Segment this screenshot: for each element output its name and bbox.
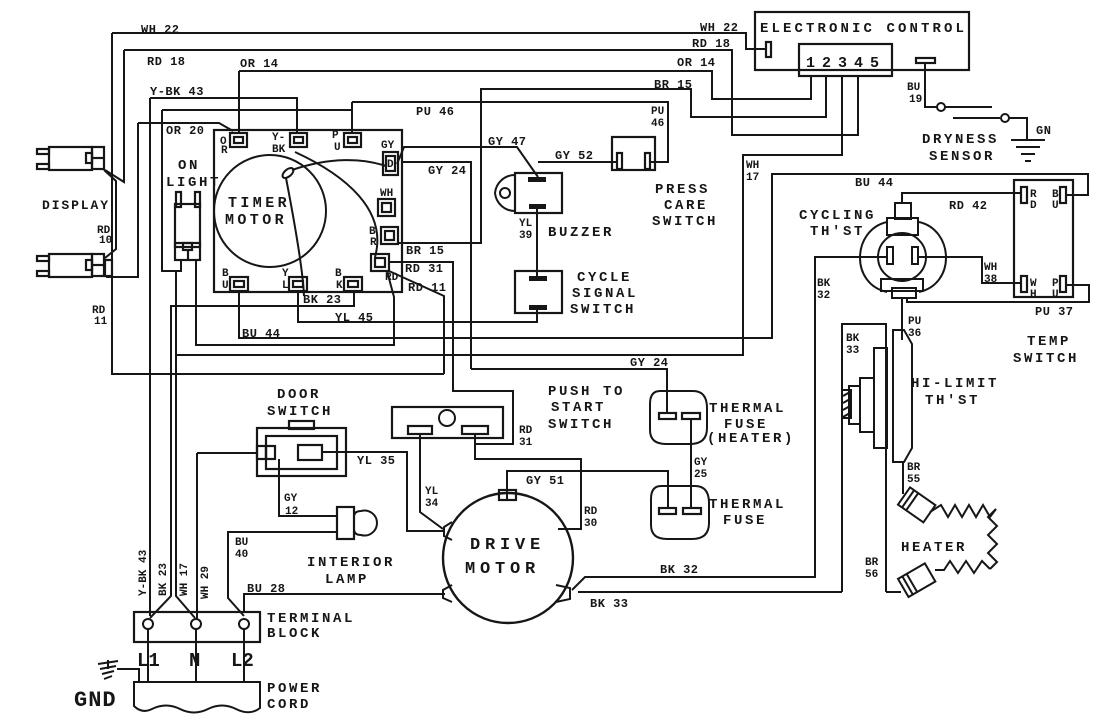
- svg-text:GY: GY: [381, 140, 395, 152]
- svg-text:GY 52: GY 52: [555, 149, 594, 163]
- svg-text:RD 42: RD 42: [949, 199, 988, 213]
- svg-text:PRESS: PRESS: [655, 182, 710, 198]
- svg-text:BR: BR: [865, 557, 879, 569]
- svg-text:CORD: CORD: [267, 697, 311, 713]
- svg-text:U: U: [1052, 200, 1059, 212]
- svg-text:L1: L1: [137, 650, 160, 672]
- svg-text:BR 15: BR 15: [406, 244, 445, 258]
- svg-text:R: R: [221, 145, 228, 157]
- svg-text:TEMP: TEMP: [1027, 334, 1071, 350]
- svg-text:K: K: [336, 280, 343, 292]
- svg-text:CYCLING: CYCLING: [799, 208, 876, 224]
- svg-text:BK: BK: [846, 333, 860, 345]
- svg-text:WH 17: WH 17: [179, 563, 191, 596]
- svg-text:TIMER: TIMER: [228, 195, 290, 212]
- svg-text:12345: 12345: [806, 55, 886, 72]
- svg-text:46: 46: [651, 118, 664, 130]
- svg-text:SENSOR: SENSOR: [929, 149, 995, 165]
- svg-text:N: N: [189, 650, 200, 672]
- svg-text:LAMP: LAMP: [325, 572, 369, 588]
- svg-text:RD 18: RD 18: [692, 37, 731, 51]
- svg-text:PUSH TO: PUSH TO: [548, 384, 625, 400]
- svg-text:D: D: [387, 159, 394, 171]
- svg-text:DISPLAY: DISPLAY: [42, 198, 110, 213]
- svg-text:WH: WH: [380, 188, 393, 200]
- svg-text:CARE: CARE: [664, 198, 708, 214]
- svg-text:Y-BK 43: Y-BK 43: [138, 549, 150, 596]
- svg-text:THERMAL: THERMAL: [709, 497, 786, 513]
- svg-text:ON: ON: [178, 158, 200, 174]
- svg-text:HEATER: HEATER: [901, 540, 967, 556]
- svg-text:40: 40: [235, 549, 248, 561]
- svg-text:GY: GY: [694, 457, 708, 469]
- svg-text:Y-BK 43: Y-BK 43: [150, 85, 204, 99]
- svg-text:34: 34: [425, 498, 439, 510]
- svg-text:WH 22: WH 22: [141, 23, 180, 37]
- svg-text:D: D: [1030, 200, 1037, 212]
- svg-text:BK: BK: [272, 144, 286, 156]
- svg-text:WH 22: WH 22: [700, 21, 739, 35]
- svg-text:YL 45: YL 45: [335, 311, 374, 325]
- svg-text:PU: PU: [651, 106, 664, 118]
- svg-text:10: 10: [99, 235, 112, 247]
- svg-text:RD 18: RD 18: [147, 55, 186, 69]
- svg-text:H: H: [1030, 289, 1037, 301]
- svg-text:PU: PU: [908, 316, 921, 328]
- svg-text:PU 46: PU 46: [416, 105, 455, 119]
- svg-text:BK 23: BK 23: [158, 563, 170, 596]
- svg-text:SWITCH: SWITCH: [267, 404, 333, 420]
- svg-text:BLOCK: BLOCK: [267, 626, 322, 642]
- svg-text:YL: YL: [519, 218, 533, 230]
- svg-text:11: 11: [94, 316, 108, 328]
- svg-text:WH: WH: [984, 262, 997, 274]
- svg-text:BK 23: BK 23: [303, 293, 342, 307]
- svg-text:BK: BK: [817, 278, 831, 290]
- svg-text:FUSE: FUSE: [723, 513, 767, 529]
- svg-text:GN: GN: [1036, 124, 1051, 138]
- svg-text:Y-: Y-: [272, 132, 285, 144]
- svg-text:OR 20: OR 20: [166, 124, 205, 138]
- svg-text:DRIVE: DRIVE: [470, 536, 545, 555]
- svg-text:U: U: [222, 280, 229, 292]
- svg-text:BU 28: BU 28: [247, 582, 286, 596]
- svg-text:55: 55: [907, 474, 921, 486]
- svg-text:B: B: [222, 268, 229, 280]
- svg-text:P: P: [332, 130, 339, 142]
- svg-text:BUZZER: BUZZER: [548, 225, 614, 241]
- svg-text:TERMINAL: TERMINAL: [267, 611, 355, 627]
- svg-text:25: 25: [694, 469, 708, 481]
- svg-text:TH'ST: TH'ST: [925, 393, 980, 409]
- svg-text:GY 24: GY 24: [630, 356, 669, 370]
- svg-text:BR: BR: [907, 462, 921, 474]
- svg-text:BK 32: BK 32: [660, 563, 699, 577]
- svg-text:RD 11: RD 11: [408, 281, 447, 295]
- svg-text:SWITCH: SWITCH: [652, 214, 718, 230]
- svg-text:38: 38: [984, 274, 998, 286]
- svg-text:L: L: [282, 280, 289, 292]
- svg-text:(HEATER): (HEATER): [707, 431, 795, 447]
- svg-text:ELECTRONIC CONTROL: ELECTRONIC CONTROL: [760, 21, 967, 37]
- svg-text:30: 30: [584, 518, 597, 530]
- svg-text:YL: YL: [425, 486, 439, 498]
- svg-text:17: 17: [746, 172, 759, 184]
- svg-text:GY: GY: [284, 493, 298, 505]
- svg-text:INTERIOR: INTERIOR: [307, 555, 395, 571]
- svg-text:MOTOR: MOTOR: [225, 212, 287, 229]
- svg-text:SIGNAL: SIGNAL: [572, 286, 638, 302]
- svg-text:SWITCH: SWITCH: [1013, 351, 1079, 367]
- svg-text:BU 44: BU 44: [242, 327, 281, 341]
- svg-text:BU: BU: [235, 537, 248, 549]
- svg-text:OR 14: OR 14: [240, 57, 279, 71]
- svg-text:GY 24: GY 24: [428, 164, 467, 178]
- svg-text:33: 33: [846, 345, 860, 357]
- svg-text:SWITCH: SWITCH: [570, 302, 636, 318]
- svg-text:MOTOR: MOTOR: [465, 560, 540, 579]
- svg-text:19: 19: [909, 94, 922, 106]
- svg-text:U: U: [1052, 289, 1059, 301]
- svg-text:GY 51: GY 51: [526, 474, 565, 488]
- svg-text:POWER: POWER: [267, 681, 322, 697]
- svg-text:GY 47: GY 47: [488, 135, 527, 149]
- svg-text:LIGHT: LIGHT: [166, 175, 221, 191]
- svg-text:START: START: [551, 400, 606, 416]
- svg-text:RD: RD: [519, 425, 533, 437]
- svg-text:R: R: [370, 237, 377, 249]
- svg-text:SWITCH: SWITCH: [548, 417, 614, 433]
- svg-text:56: 56: [865, 569, 878, 581]
- svg-text:OR 14: OR 14: [677, 56, 716, 70]
- svg-text:HI-LIMIT: HI-LIMIT: [911, 376, 999, 392]
- svg-text:CYCLE: CYCLE: [577, 270, 632, 286]
- svg-text:THERMAL: THERMAL: [709, 401, 786, 417]
- svg-text:U: U: [334, 142, 341, 154]
- svg-text:DOOR: DOOR: [277, 387, 321, 403]
- svg-text:L2: L2: [231, 650, 254, 672]
- svg-text:31: 31: [519, 437, 533, 449]
- svg-text:WH: WH: [746, 160, 759, 172]
- svg-text:PU 37: PU 37: [1035, 305, 1074, 319]
- svg-text:TH'ST: TH'ST: [810, 224, 865, 240]
- svg-text:YL 35: YL 35: [357, 454, 396, 468]
- svg-text:39: 39: [519, 230, 532, 242]
- svg-text:RD 31: RD 31: [405, 262, 444, 276]
- svg-text:32: 32: [817, 290, 830, 302]
- svg-text:B: B: [335, 268, 342, 280]
- svg-text:RD: RD: [584, 506, 598, 518]
- svg-text:BR 15: BR 15: [654, 78, 693, 92]
- svg-text:DRYNESS: DRYNESS: [922, 132, 999, 148]
- svg-text:BU: BU: [907, 82, 920, 94]
- svg-text:36: 36: [908, 328, 921, 340]
- svg-text:Y: Y: [282, 268, 289, 280]
- svg-text:WH 29: WH 29: [200, 566, 212, 599]
- svg-text:BU 44: BU 44: [855, 176, 894, 190]
- svg-text:12: 12: [285, 506, 298, 518]
- svg-text:GND: GND: [74, 688, 117, 713]
- svg-text:BK 33: BK 33: [590, 597, 629, 611]
- svg-text:RD: RD: [385, 272, 399, 284]
